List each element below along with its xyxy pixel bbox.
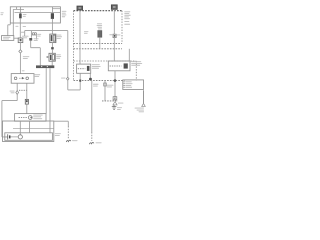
mechanical link dashes (19, 89, 27, 91)
switch D1 wires (32, 35, 37, 40)
box engine harness outline (25, 31, 80, 90)
switch D1 contacts (32, 33, 36, 35)
label lamp box (3, 37, 11, 40)
wire C_c down (26, 104, 28, 114)
module box R1 (123, 80, 144, 90)
relay K2 contact (124, 63, 128, 68)
fuse F1 (77, 6, 83, 10)
wire feeds from box top edge (17, 7, 53, 14)
connector on aux (104, 83, 107, 86)
dashed connector row 3 (102, 100, 118, 102)
arrow symbol (113, 102, 117, 105)
arrow into E1 (47, 56, 49, 58)
relay K1 contact (87, 66, 90, 71)
ignition switch box (11, 74, 34, 84)
label S2 (10, 91, 15, 94)
label G1 (72, 139, 78, 142)
dashed panel left edge (73, 11, 75, 81)
ground symbol G3 (112, 105, 117, 109)
wire aux down (104, 80, 106, 100)
dashed connector row 2 (74, 48, 123, 50)
wire switch left down (16, 83, 18, 90)
wire stub y8.9 (13, 8, 24, 10)
label D1 lower (34, 38, 39, 41)
wire R1 down (19, 18, 21, 25)
wire center ground run (91, 80, 93, 132)
label G3 (117, 107, 122, 110)
label E1 (56, 54, 61, 58)
wire lamp to C_b (14, 37, 18, 39)
label key-in warning (97, 23, 103, 29)
splice S1 (19, 50, 22, 53)
wire label (23, 56, 30, 59)
relay H1 link dashes (19, 117, 28, 119)
dashed ground drop G2 (91, 132, 93, 141)
label aux (107, 85, 114, 88)
junction square K1 (79, 80, 81, 82)
switch D1 pole (30, 31, 32, 38)
wire exit right (54, 121, 69, 126)
solenoid D2 (50, 34, 56, 43)
connector symbol (113, 97, 117, 100)
switch terminal R (26, 77, 29, 80)
relay K1 box (77, 64, 91, 73)
dashed relay box right (135, 61, 137, 80)
connector square (51, 47, 54, 49)
dashed fuse bus (74, 10, 123, 12)
wire to E1 (51, 49, 53, 53)
connector half moon (89, 78, 92, 81)
label above switch (22, 69, 25, 72)
dashed panel right edge (121, 11, 123, 44)
wire F1 down (79, 10, 81, 64)
relay H1 box (15, 114, 46, 122)
dashed connector row 1 (74, 42, 123, 44)
label top-left (1, 12, 4, 15)
label K1 (92, 64, 101, 69)
dashed ground drop G1 (67, 126, 69, 139)
wire R3 down (99, 37, 101, 49)
wire battery tee (2, 101, 17, 137)
relay H1 coil circle (28, 116, 32, 120)
label K2 (131, 61, 142, 66)
inner box O2 (5, 133, 53, 141)
label right of box (62, 11, 67, 17)
switch contact dashes (19, 77, 24, 79)
battery (5, 134, 18, 139)
label module rows (125, 81, 132, 87)
label O2 (55, 133, 61, 136)
wire bar down B (49, 68, 51, 133)
wire module down (143, 90, 145, 103)
relay K1 link dashes (78, 68, 86, 70)
dashed relay box top (74, 60, 137, 62)
wire D1 elbow (31, 41, 41, 66)
resistor R3 (98, 31, 102, 38)
mid line (13, 128, 54, 130)
arrow in switch (22, 77, 24, 80)
wire F2 down (113, 9, 115, 61)
motor circle (18, 135, 22, 139)
outer box O1 (3, 121, 54, 142)
wire H1 right down (29, 121, 31, 133)
resistor R2 (51, 13, 54, 19)
ground symbol G2 (89, 142, 94, 144)
switch terminal L (14, 77, 17, 80)
wire K1 contact down (89, 73, 91, 80)
label wire colour (15, 26, 26, 27)
label G2 (96, 141, 102, 144)
instrument cluster box B1 (10, 7, 60, 23)
wire R2 down (51, 19, 53, 34)
ground bar (36, 65, 54, 68)
wire bar down A (45, 68, 47, 114)
starter E1 (49, 53, 55, 61)
wire switch right down (26, 83, 28, 99)
relay K2 link dashes (110, 65, 122, 67)
label near corner (21, 32, 29, 39)
dashed relay box bottom (74, 79, 125, 81)
label S3 (61, 77, 66, 80)
connector on F2 wire (113, 34, 116, 37)
wire K2 down (114, 71, 116, 101)
relay K2 box (108, 61, 130, 71)
wire D2 down (51, 43, 53, 48)
label H1 (33, 115, 43, 120)
resistor R1 (19, 14, 22, 19)
label connector left (109, 34, 120, 35)
switch D1 body (29, 38, 32, 41)
label center wire (93, 84, 99, 87)
wire K2 right feed (128, 49, 130, 61)
label arrow (118, 102, 124, 105)
label D2 (57, 35, 62, 39)
wire left jog to lamp box (8, 23, 11, 36)
label left of R3 (84, 31, 88, 34)
wire C_b down (19, 43, 21, 50)
connector C_b (18, 38, 23, 43)
lamp box (2, 36, 14, 41)
junction square K2 (114, 79, 116, 81)
label bottom right (135, 108, 144, 113)
fuse F2 (111, 5, 117, 9)
wire internal bus y12.8 (15, 12, 61, 14)
wire branch x13.3 (12, 9, 14, 35)
connector C_c (25, 99, 28, 104)
splice S3 (66, 77, 69, 80)
splice S2 (16, 91, 19, 95)
label top right (124, 11, 130, 24)
wire R1 to C_b (19, 26, 21, 38)
label R1 value (23, 14, 27, 17)
wire stub right (53, 8, 61, 10)
label ignition switch (35, 74, 41, 77)
wire S1 to switch (19, 53, 21, 74)
wire S2 down (16, 95, 18, 101)
wire E1 down (51, 61, 53, 65)
ground symbol G1 (66, 140, 71, 142)
wire H1 to motor (19, 121, 21, 135)
arrow symbol BR (142, 103, 146, 106)
label D1 (37, 34, 41, 37)
wire K1 down (79, 73, 81, 90)
module pins (124, 81, 125, 87)
